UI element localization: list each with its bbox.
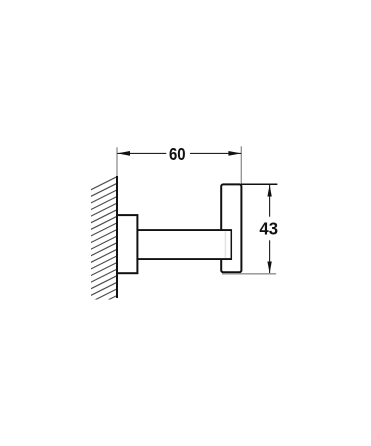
wall line [116,176,118,298]
dimension line 60 [117,152,241,154]
arrow bottom of 43-dim [267,262,271,274]
arrow right of 60-dim [228,151,241,156]
extension line top of 43-dim (black, rightward from hook bar top) [241,183,277,185]
dimension line 43 [269,185,271,273]
mounting plate [117,215,137,273]
arrow top of 43-dim [267,185,271,197]
wall hatching [84,175,120,312]
extension line left (gray, from wall top up to 60-dim) [116,147,118,176]
extension line bottom of 43-dim (gray, rightward from hook bar bottom) [222,273,276,275]
extension line right (gray, from hook bar top-right up to 60-dim) [240,146,242,184]
hook bar (vertical end piece) [221,184,241,272]
svg-text:43: 43 [259,218,278,238]
arrow left of 60-dim [117,151,130,156]
arm (horizontal bar), drawn over hook bar left edge [137,229,231,260]
svg-text:60: 60 [169,144,186,164]
ghost edge of hook bar seen across arm [224,231,226,258]
